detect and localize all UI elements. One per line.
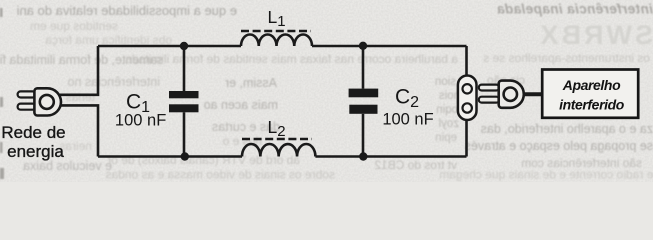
appliance box xyxy=(542,70,638,118)
background paper xyxy=(0,0,653,182)
svg-text:interferência inapelada: interferência inapelada xyxy=(497,2,653,17)
svg-text:Assim, er: Assim, er xyxy=(225,76,277,90)
label: Rede de energia xyxy=(1,123,65,161)
ghost bleed-through text (mirrored show-through from verso) xyxy=(0,2,653,182)
wire: C1 bottom lead xyxy=(183,112,186,156)
mains plug P1 (left, "Rede de energia") xyxy=(18,88,61,115)
node A: junction top rail / C1 xyxy=(180,42,188,50)
wire: cord from plug to appliance box xyxy=(524,92,542,96)
capacitor C1 plates xyxy=(169,91,199,112)
plug P1 top prong xyxy=(18,91,36,97)
svg-text:epin: epin xyxy=(435,132,457,144)
svg-text:interferências no: interferências no xyxy=(68,75,160,89)
wire: bottom rail left segment xyxy=(98,155,242,158)
svg-text:Aparelho: Aparelho xyxy=(562,77,621,93)
node C: junction bottom rail / C1 xyxy=(181,152,189,160)
wire: bottom rail right segment xyxy=(315,155,466,158)
wire: top rail left segment (node A side) xyxy=(98,45,241,48)
svg-text:za e o aparelho interferido, d: za e o aparelho interferido, das xyxy=(481,122,653,136)
svg-text:100 nF: 100 nF xyxy=(115,112,166,130)
svg-text:100 nF: 100 nF xyxy=(382,111,433,129)
svg-text:e veiculos baixa: e veiculos baixa xyxy=(23,159,112,173)
svg-text:sobre os sinais de video massa: sobre os sinais de video massa e as onda… xyxy=(106,168,335,182)
node D: junction bottom rail / C2 xyxy=(359,152,367,160)
svg-text:tenas: tenas xyxy=(66,90,95,104)
appliance plug P2 (right) xyxy=(479,81,524,108)
svg-text:SWRBX: SWRBX xyxy=(538,20,653,50)
svg-text:e que a impossibilidade relati: e que a impossibilidade relativa do ani xyxy=(16,3,237,18)
appliance box label xyxy=(559,77,625,113)
svg-text:zoyl: zoyl xyxy=(439,118,459,130)
wire: plug top lead to top rail xyxy=(60,46,98,95)
wire: C1 top lead xyxy=(183,46,186,91)
socket X1 bottom hole xyxy=(463,103,472,112)
svg-text:sion: sion xyxy=(435,76,456,88)
plug P2 bottom prong xyxy=(479,97,499,103)
svg-text:a barulheira ocorre nas faixas: a barulheira ocorre nas faixas mais sent… xyxy=(125,52,458,66)
svg-text:os instrumentos-aparelhos se s: os instrumentos-aparelhos se s xyxy=(483,51,650,65)
plug P2 top prong xyxy=(479,85,499,91)
left page-edge dark marks xyxy=(0,8,4,179)
svg-text:de radio corrente e de sinais: de radio corrente e de sinais que chegam xyxy=(439,168,653,182)
wire: C2 top lead xyxy=(362,46,365,89)
wire: top rail right segment xyxy=(312,45,467,48)
inductor L2 xyxy=(242,144,315,157)
L1 core dashed line xyxy=(241,30,311,33)
svg-text:ab ord de VTR (canais baixos): ab ord de VTR (canais baixos) de or xyxy=(107,153,300,167)
svg-text:sentidos que em: sentidos que em xyxy=(30,19,118,33)
svg-text:Rede de: Rede de xyxy=(1,123,65,142)
svg-text:mais acen ao: mais acen ao xyxy=(204,98,278,112)
plug P2 cable hole xyxy=(504,88,517,101)
plug P2 body xyxy=(499,81,524,108)
wire: plug bottom lead to bottom rail xyxy=(60,105,98,156)
wire: right rail lower (from socket) xyxy=(465,120,468,157)
svg-text:oqin: oqin xyxy=(436,104,458,116)
outlet socket X1 (filter output) xyxy=(458,76,477,121)
svg-text:se propaga pelo espaço e atrav: se propaga pelo espaço e através xyxy=(465,139,653,153)
socket X1 body xyxy=(458,76,477,121)
inductor L1 xyxy=(241,35,312,47)
socket X1 top hole xyxy=(463,84,472,93)
svg-text:interferido: interferido xyxy=(559,97,625,113)
plug P1 cable hole xyxy=(40,95,54,109)
plug P1 bottom prong xyxy=(18,104,36,110)
svg-text:energia: energia xyxy=(7,142,64,161)
plug P1 body xyxy=(34,88,61,115)
node B: junction top rail / C2 xyxy=(359,42,367,50)
L2 core dashed line xyxy=(242,138,312,141)
wire: right rail upper (to socket) xyxy=(465,46,468,76)
wire: C2 bottom lead xyxy=(362,114,365,157)
capacitor C2 plates xyxy=(349,89,379,114)
